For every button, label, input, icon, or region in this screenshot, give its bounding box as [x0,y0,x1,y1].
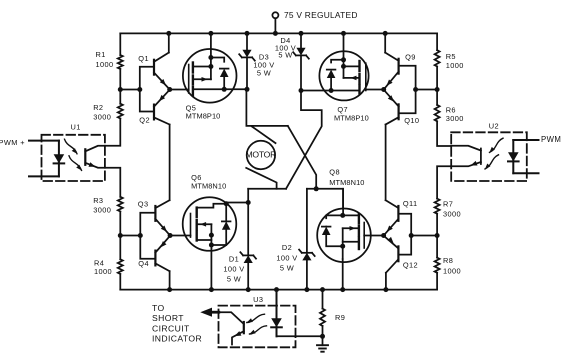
wire R6 to U2 collector [437,121,451,146]
svg-text:R2: R2 [93,103,103,112]
node D2 bottom rail [304,287,309,292]
svg-text:Q11: Q11 [403,199,418,208]
wire U3 to R9 ground node [277,335,323,337]
wire Q10 collector to Q11 collector [385,125,387,201]
wire R9 to ground [322,326,324,345]
wire crossover left-to-right [288,126,316,189]
node top rail Q5 source [208,31,213,36]
diode U2 LED [508,140,519,173]
node top rail Q1 collector [166,31,171,36]
svg-text:1000: 1000 [446,61,464,70]
label U3 [253,295,263,304]
arrow to short circuit indicator [200,308,219,317]
node D3 Q5 drain junction [245,87,250,92]
wire top supply rail [120,32,437,34]
opto arrows U2 [485,138,503,169]
label TO SHORT CIRCUIT INDICATOR [152,303,202,344]
svg-text:R7: R7 [443,199,453,208]
wire Q4 collector to bottom rail [169,271,171,289]
svg-text:Q1: Q1 [138,54,149,63]
node R5-R6 junction [435,87,440,92]
optocoupler U2 box [451,132,527,181]
node D4 Q7 drain junction [299,88,304,93]
diode D4 zener [293,33,309,90]
label D4 [275,36,296,60]
svg-text:R3: R3 [93,196,103,205]
node 75V terminal [272,12,278,33]
svg-text:Q8: Q8 [329,167,340,176]
resistor R8 [435,256,461,276]
node R7-R8 junction [435,233,440,238]
svg-text:Q10: Q10 [404,116,419,125]
svg-text:TO: TO [152,303,165,313]
label PWM right [541,135,561,144]
svg-text:MTM8P10: MTM8P10 [186,111,221,120]
svg-text:R5: R5 [446,52,456,61]
resistor R3 [93,196,123,215]
svg-text:SHORT: SHORT [152,313,184,323]
svg-text:Q9: Q9 [405,52,416,61]
label Q6 [191,173,226,191]
transistor Q12 [384,236,418,273]
svg-text:Q3: Q3 [138,200,149,209]
svg-text:1000: 1000 [443,267,461,276]
opto arrows U3 [247,314,267,334]
svg-text:MOTOR: MOTOR [246,150,277,160]
node U3 R9 junction [320,334,325,339]
svg-text:5 W: 5 W [280,263,294,272]
diode U3 LED [271,312,282,337]
wire R1 to node [119,69,121,104]
wire right rail upper segment [436,33,438,50]
ground [317,345,328,352]
wire Q12 collector to bottom rail [385,273,387,290]
node top rail Q9 collector [383,31,388,36]
transistor Q11 [384,199,418,236]
wire base split right lower [398,214,411,255]
wire left bridge output [246,89,287,126]
svg-text:3000: 3000 [446,114,464,123]
node supply to rail [273,31,278,36]
svg-text:5 W: 5 W [278,51,292,60]
node Q8 source bottom rail [340,287,345,292]
node Q9 Q10 base junction [413,87,418,92]
wire R5 to node [436,67,438,105]
phototransistor U1 [85,146,105,168]
resistor R5 [435,50,464,70]
svg-text:PWM: PWM [541,135,561,144]
svg-text:U1: U1 [71,123,81,132]
transistor Q10 [384,90,420,125]
svg-text:U2: U2 [489,121,499,130]
wire R4 to bottom rail [119,274,121,290]
svg-text:R8: R8 [443,256,453,265]
label D2 [276,243,297,272]
optocoupler U1 box [42,135,105,181]
opto arrows U1 [65,139,82,170]
transistor Q2 [139,90,169,125]
node Q12 collector bottom rail [383,287,388,292]
svg-text:D2: D2 [282,243,292,252]
label U1 [71,123,81,132]
transistor Q5 MTM8P10 [170,33,247,102]
transistor Q4 [138,236,170,272]
wire U3 LED from rail [276,290,278,312]
svg-text:D1: D1 [229,255,239,264]
svg-text:MTM8P10: MTM8P10 [334,114,369,123]
diode D3 zener [239,33,255,89]
resistor R9 [320,309,345,326]
wire left rail upper segment [119,33,121,55]
wire R7R8 node to Q11 Q12 bases [411,235,437,237]
svg-text:MTM8N10: MTM8N10 [329,178,364,187]
node top rail Q7 source [341,31,346,36]
transistor Q3 [138,200,170,236]
wire lower left output row [248,188,286,190]
svg-text:Q2: Q2 [139,115,150,124]
node R9 top rail [320,287,325,292]
transistor Q6 MTM8N10 [170,197,248,289]
wire motor bottom lead [246,168,276,189]
svg-text:Q4: Q4 [138,259,149,268]
label 75 V REGULATED [284,10,358,20]
node Q11 Q12 base junction [409,233,414,238]
node D1 top junction [246,200,251,205]
node Q9 Q10 emitter junction [381,87,386,92]
svg-text:5 W: 5 W [257,68,271,77]
svg-text:Q12: Q12 [403,260,418,269]
svg-text:R9: R9 [335,313,345,322]
svg-text:5 W: 5 W [227,275,241,284]
motor M1 [246,141,277,169]
phototransistor U2 [451,146,481,167]
node R3-R4 junction [118,233,123,238]
node R1-R2 junction [118,87,123,92]
wire base split lower [140,213,155,259]
transistor Q7 MTM8P10 [301,33,384,100]
svg-text:3000: 3000 [93,113,111,122]
wire R8 to bottom rail [436,273,438,290]
node Q3 Q4 emitter junction [168,233,173,238]
phototransistor U3 [219,312,244,344]
wire PWM input right [513,139,538,141]
label Q7 [334,105,369,122]
label PWM+ [0,138,25,147]
wire base split right upper [399,66,416,114]
svg-text:MTM8N10: MTM8N10 [191,182,226,191]
wire R5R6 node to Q9 Q10 bases [416,89,438,91]
diode D2 zener [299,189,315,290]
svg-text:3000: 3000 [93,206,111,215]
wire rail to Q1 Q2 bases [120,89,140,91]
resistor R2 [93,103,123,122]
node top rail D3 [245,31,250,36]
resistor R6 [435,105,464,123]
svg-text:1000: 1000 [96,60,114,69]
resistor R4 [94,259,123,276]
node Q11 Q12 emitter junction [381,233,386,238]
label U2 [489,121,499,130]
svg-text:CIRCUIT: CIRCUIT [152,323,190,333]
transistor Q8 MTM8N10 [317,189,383,290]
wire U2 cathode stub [513,172,538,174]
label Q5 [186,104,221,121]
wire R9 from rail [322,290,324,309]
svg-text:3000: 3000 [443,210,461,219]
diode D1 zener [240,189,256,290]
svg-text:100 V: 100 V [276,253,297,262]
wire PWM+ input top [29,140,59,142]
resistor R7 [435,199,461,219]
wire lower right output row [307,189,343,209]
wire bottom rail [120,289,437,291]
svg-text:75 V REGULATED: 75 V REGULATED [284,10,358,20]
svg-text:INDICATOR: INDICATOR [152,334,202,344]
wire crossover right-to-left [286,91,322,189]
resistor R1 [96,50,123,69]
node Q1 Q2 base junction [137,87,142,92]
wire base split [140,67,154,112]
svg-text:U3: U3 [253,295,263,304]
optocoupler U3 box [219,306,296,348]
wire U1 emitter to R3 [105,168,120,197]
label D3 [253,52,274,77]
svg-text:R1: R1 [96,50,106,59]
node Q6 source bottom rail [209,287,214,292]
transistor Q1 [138,33,169,89]
node top rail D4 [299,31,304,36]
svg-text:Q6: Q6 [191,173,202,182]
wire R2 to U1 collector [105,119,120,146]
node Q3 Q4 base junction [138,233,143,238]
wire U2 emitter to R7 [437,166,451,198]
wire node to Q6 drain [247,202,249,204]
diode U1 LED [54,141,65,177]
node D1 bottom rail [246,287,251,292]
wire R7 to node [436,214,438,258]
wire PWM+ input bottom [29,175,59,177]
node crossover junction [314,186,319,191]
label D1 [223,255,244,284]
svg-text:PWM +: PWM + [0,138,25,147]
svg-text:1000: 1000 [94,267,112,276]
node U3 LED rail [274,287,279,292]
transistor Q9 [384,33,416,89]
wire R3 to node [119,212,121,260]
node Q1 Q2 emitter junction [167,87,172,92]
wire motor top lead [252,127,276,144]
wire Q2 collector to Q3 collector [169,125,171,201]
wire rail to Q3 Q4 bases [120,235,140,237]
label Q8 [329,167,364,186]
node Q4 collector bottom rail [167,287,172,292]
svg-text:100 V: 100 V [223,265,244,274]
